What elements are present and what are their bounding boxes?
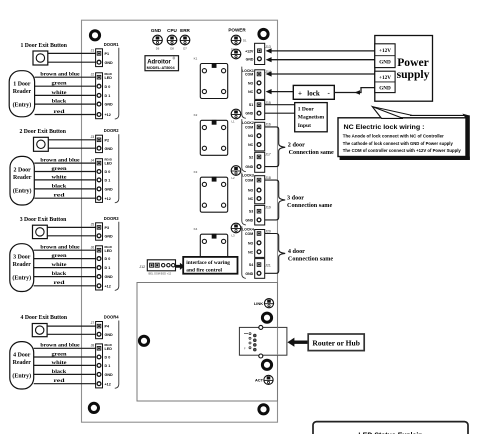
wire button1 to P1 [48, 52, 96, 54]
svg-text:Input: Input [298, 123, 311, 129]
wire button2 to P2 [48, 139, 95, 141]
terminal J3 exit button door2 [91, 135, 113, 153]
svg-text:4 Door: 4 Door [13, 353, 31, 359]
svg-text:J6: J6 [91, 245, 95, 249]
svg-text:J7: J7 [91, 321, 95, 325]
wire power +12V to COM lock1 [266, 71, 375, 76]
svg-text:J1: J1 [91, 48, 95, 52]
svg-text:J16: J16 [265, 123, 271, 127]
lock4 label strip line [242, 226, 246, 278]
wire lock to NC lock1 [266, 89, 294, 94]
wire reader1 black [35, 99, 96, 105]
svg-text:K3: K3 [194, 170, 198, 174]
terminal J2 reader door1 [91, 72, 113, 119]
svg-text:GND: GND [105, 147, 114, 151]
svg-text:D 1: D 1 [105, 266, 111, 270]
svg-text:NO: NO [248, 241, 254, 245]
wire button1 to GND [48, 61, 96, 63]
door 1 label strip line [115, 48, 119, 119]
svg-text:D 1: D 1 [105, 179, 111, 183]
svg-text:white: white [52, 90, 68, 96]
svg-text:+12V: +12V [379, 75, 391, 81]
svg-text:D1: D1 [243, 39, 247, 43]
door 2 group: exit button label [19, 128, 66, 135]
wire button4 to GND [47, 333, 96, 335]
svg-text:DOOR3: DOOR3 [104, 216, 120, 221]
svg-text:(Entry): (Entry) [13, 187, 32, 194]
svg-text:+12V: +12V [379, 48, 391, 54]
electric lock component [293, 85, 334, 99]
relay K2 [194, 113, 228, 155]
svg-text:green: green [52, 351, 67, 357]
svg-text:P2: P2 [105, 138, 110, 142]
svg-text:Connection same: Connection same [289, 149, 334, 156]
lock1 label strip line [242, 67, 246, 119]
svg-text:J3: J3 [91, 135, 95, 139]
terminal J4 reader door2 [91, 158, 113, 203]
svg-text:Router or Hub: Router or Hub [312, 339, 360, 347]
door 2 reader (entry) [10, 156, 34, 205]
terminal J15 door1 sensor [245, 101, 270, 120]
mounting hole bottom-left [89, 403, 98, 412]
svg-text:Connection same: Connection same [288, 255, 333, 262]
svg-text:S4: S4 [249, 263, 253, 267]
interface of warning and fire control box [183, 257, 237, 274]
svg-text:3 door: 3 door [287, 195, 304, 202]
svg-text:brown and blue: brown and blue [40, 158, 80, 164]
svg-text:K2: K2 [194, 113, 198, 117]
wire reader4 white [34, 360, 96, 366]
svg-text:L1: L1 [232, 119, 236, 123]
svg-text:D7: D7 [183, 47, 187, 51]
exit button SW2 [34, 137, 49, 151]
svg-text:NC: NC [248, 250, 254, 254]
svg-text:L3: L3 [232, 233, 236, 237]
LED L1 lock indicator [231, 109, 241, 123]
terminal J8 reader door4 [91, 343, 113, 388]
svg-text:supply: supply [397, 68, 430, 81]
svg-text:+12: +12 [105, 284, 111, 288]
svg-text:brown and blue: brown and blue [40, 72, 80, 78]
svg-text:Magnetism: Magnetism [298, 115, 325, 121]
LOCK4 silkscreen label [242, 228, 254, 232]
svg-text:3 Door Exit Button: 3 Door Exit Button [20, 216, 67, 223]
svg-text:GND: GND [105, 103, 114, 107]
exit button SW4 [32, 324, 47, 337]
terminal J16 lock2 relay output [245, 122, 271, 151]
LED ERR (status) [180, 28, 190, 51]
svg-text:black: black [52, 271, 68, 277]
svg-text:S1: S1 [249, 103, 253, 107]
door 3 group: exit button label [20, 216, 67, 223]
svg-text:black: black [52, 99, 68, 105]
svg-text:Connection same: Connection same [287, 202, 332, 209]
wire reader2 green [34, 166, 95, 172]
Adroitor model label U-silkscreen [145, 56, 179, 71]
svg-text:Reader: Reader [13, 89, 32, 95]
svg-text:GND: GND [105, 275, 114, 279]
relay K4 [194, 227, 228, 269]
svg-text:GND: GND [245, 112, 253, 116]
LED POWER [228, 28, 247, 45]
svg-text:K4: K4 [194, 227, 198, 231]
svg-text:lock: lock [307, 89, 320, 97]
wire lock minus to power GND (hook) [334, 88, 375, 95]
LED D2 [231, 48, 241, 59]
svg-text:NC: NC [248, 143, 254, 147]
svg-text:COM: COM [245, 232, 253, 236]
door 3 reader (entry) [10, 244, 34, 292]
brace 4 door connection [265, 234, 285, 274]
label 4 door connection same [288, 248, 333, 262]
router or hub box [308, 334, 364, 351]
svg-text:CPU: CPU [167, 28, 177, 33]
svg-text:DOOR1: DOOR1 [104, 42, 120, 47]
svg-text:LED: LED [105, 347, 113, 351]
mounting hole near RJ45 lower [262, 360, 271, 369]
svg-text:The COM of controller connect: The COM of controller connect with +12V … [343, 148, 461, 153]
svg-text:LED: LED [105, 162, 113, 166]
PCB board outline [82, 20, 278, 422]
svg-text:GND: GND [379, 60, 391, 66]
svg-text:DOOR4: DOOR4 [104, 315, 120, 320]
wire reader1 green [35, 81, 96, 87]
terminal J6 reader door3 [91, 245, 113, 290]
wire reader2 brown and blue [34, 158, 95, 164]
svg-text:GND: GND [246, 57, 254, 61]
svg-text:+12: +12 [105, 382, 111, 386]
svg-text:J19: J19 [265, 206, 271, 210]
svg-text:Adroitor: Adroitor [147, 59, 171, 65]
brace 2 door connection [265, 127, 285, 167]
svg-text:J5: J5 [91, 222, 95, 226]
wire power +12V to J13 [266, 48, 375, 53]
door 1 reader (entry) [9, 71, 34, 117]
svg-text:NC Electric lock wiring :: NC Electric lock wiring : [344, 125, 425, 131]
wire reader4 red [34, 378, 96, 384]
svg-text:red: red [54, 193, 65, 199]
svg-text:and fire control: and fire control [186, 268, 222, 274]
svg-text:D 0: D 0 [105, 85, 111, 89]
svg-text:J2: J2 [91, 72, 95, 76]
svg-text:LED: LED [105, 76, 113, 80]
terminal J13 power input [245, 43, 271, 64]
LED status explain box [313, 422, 468, 434]
mounting hole bottom-right [259, 405, 268, 414]
DOOR4 silkscreen label [104, 315, 120, 320]
svg-text:J8: J8 [91, 344, 95, 348]
svg-text:D 1: D 1 [105, 364, 111, 368]
svg-text:green: green [52, 253, 67, 259]
svg-text:(Entry): (Entry) [12, 275, 31, 282]
svg-text:3 Door: 3 Door [13, 255, 31, 261]
svg-text:COM: COM [245, 179, 253, 183]
wire reader1 red [35, 109, 96, 115]
svg-text:J4: J4 [91, 158, 95, 162]
LED LINK [254, 299, 274, 308]
svg-text:BEL GSM BSD +12: BEL GSM BSD +12 [149, 272, 172, 276]
svg-text:S3: S3 [249, 210, 253, 214]
svg-text:D8: D8 [170, 47, 174, 51]
network section inner outline [137, 283, 278, 402]
svg-text:MODEL:AT8004: MODEL:AT8004 [147, 66, 175, 70]
door 4 group: exit button label [21, 314, 68, 321]
svg-text:GND: GND [245, 272, 253, 276]
wire reader3 black [34, 271, 96, 277]
wire reader4 black [34, 369, 96, 375]
wire reader3 red [34, 280, 96, 286]
svg-text:red: red [54, 378, 65, 384]
svg-text:1 Door: 1 Door [298, 106, 315, 112]
LED L2 lock indicator [231, 166, 241, 180]
terminal J5 exit button door3 [91, 222, 113, 240]
svg-text:white: white [52, 262, 68, 268]
lock2 label strip line [242, 119, 246, 172]
wire button3 to GND [47, 235, 95, 237]
terminal J1 exit button door1 [91, 48, 113, 66]
1 door magnetism input box [295, 103, 328, 132]
svg-text:black: black [52, 369, 68, 375]
svg-text:2 Door: 2 Door [14, 167, 32, 173]
wire button3 to P3 [47, 226, 95, 228]
svg-text:D 1: D 1 [105, 94, 111, 98]
svg-text:The Anode of lock connect with: The Anode of lock connect with NC of Con… [343, 134, 444, 139]
door 4 reader (entry) [10, 342, 34, 389]
terminal J14 lock1 relay output [245, 70, 271, 100]
power supply unit [375, 36, 433, 102]
svg-text:P3: P3 [105, 226, 110, 230]
svg-text:NO: NO [248, 189, 254, 193]
mounting hole top-left [90, 31, 99, 40]
svg-text:K1: K1 [194, 56, 198, 60]
svg-text:GND: GND [379, 86, 391, 92]
svg-text:GND: GND [105, 234, 114, 238]
svg-text:brown and blue: brown and blue [40, 245, 80, 251]
wire reader3 brown and blue [34, 245, 96, 251]
svg-text:GND: GND [245, 218, 253, 222]
svg-text:COM: COM [245, 125, 253, 129]
wire reader3 white [34, 262, 96, 268]
wire button4 to P4 [47, 325, 96, 327]
svg-text:J21: J21 [265, 264, 271, 268]
wire button2 to GND [48, 147, 95, 149]
brace 3 door connection [265, 180, 285, 220]
svg-text:LINK: LINK [254, 301, 263, 306]
arrow J12 to interface [176, 263, 185, 270]
terminal J21 door4 sensor [245, 259, 270, 279]
svg-text:D 0: D 0 [105, 257, 111, 261]
svg-text:GND: GND [151, 28, 162, 33]
svg-text:LOCK4: LOCK4 [242, 228, 254, 232]
svg-text:D 0: D 0 [105, 170, 111, 174]
door 4 label strip line [115, 321, 119, 389]
svg-text:GND: GND [105, 373, 114, 377]
svg-text:interface of waring: interface of waring [186, 260, 230, 266]
svg-text:LED: LED [105, 249, 113, 253]
svg-text:(Entry): (Entry) [12, 373, 31, 380]
wire reader3 green [34, 253, 96, 259]
exit button SW3 [33, 225, 48, 238]
DOOR2 silkscreen label [104, 128, 120, 133]
svg-text:The cathode of lock connect wi: The cathode of lock connect with GND of … [343, 141, 453, 146]
svg-text:+12V: +12V [245, 49, 254, 53]
svg-text:J13: J13 [265, 45, 271, 49]
svg-text:Reader: Reader [13, 262, 32, 268]
svg-text:white: white [52, 174, 68, 180]
LED GND (status) [151, 28, 162, 51]
svg-text:NC: NC [248, 90, 254, 94]
svg-text:D6: D6 [156, 47, 160, 51]
label 3 door connection same [287, 195, 332, 210]
lock3 label strip line [242, 173, 246, 226]
terminal J20 lock4 relay output [245, 230, 271, 258]
svg-text:1 Door: 1 Door [13, 82, 31, 88]
exit button SW1 [33, 51, 48, 65]
relay K3 [194, 170, 228, 212]
svg-text:Reader: Reader [13, 360, 32, 366]
wire reader2 white [34, 174, 95, 180]
power supply output 2 (+12V/GND) [375, 71, 395, 92]
door 2 label strip line [115, 134, 119, 203]
svg-text:NO: NO [248, 134, 254, 138]
svg-text:COM: COM [245, 73, 253, 77]
svg-text:2 Door Exit Button: 2 Door Exit Button [19, 128, 66, 135]
wire power GND to J13 [266, 57, 375, 62]
svg-text:+12: +12 [105, 113, 111, 117]
terminal J19 door3 sensor [245, 205, 270, 225]
terminal J7 exit button door4 [91, 321, 113, 339]
label 2 door connection same [288, 141, 334, 156]
svg-text:4 Door Exit Button: 4 Door Exit Button [21, 314, 68, 321]
RJ45 ethernet connector [239, 325, 287, 358]
svg-text:ERR: ERR [180, 28, 190, 33]
svg-text:+: + [298, 89, 302, 97]
DOOR1 silkscreen label [104, 42, 120, 47]
svg-text:S2: S2 [249, 155, 253, 159]
wire reader1 white [35, 90, 96, 96]
svg-text:NC: NC [248, 197, 254, 201]
LOCK3 silkscreen label [242, 173, 254, 177]
door 1 group: exit button label [20, 42, 67, 49]
svg-text:J12: J12 [139, 265, 145, 269]
svg-text:brown and blue: brown and blue [40, 343, 80, 349]
svg-text:red: red [54, 280, 65, 286]
svg-text:DOOR2: DOOR2 [104, 128, 120, 133]
svg-text:Reader: Reader [13, 175, 32, 181]
LOCK1 silkscreen label [242, 69, 254, 73]
arrow router to RJ45 [287, 338, 308, 347]
terminal J12 fire/alarm [139, 260, 175, 276]
svg-text:GND: GND [105, 333, 114, 337]
svg-text:white: white [52, 360, 68, 366]
wire reader1 brown and blue [35, 72, 96, 78]
svg-text:GND: GND [105, 188, 114, 192]
LED ACT [255, 375, 273, 384]
LED L3 lock indicator [231, 223, 241, 237]
svg-text:LOCK3: LOCK3 [242, 173, 254, 177]
terminal J18 lock3 relay output [245, 176, 271, 204]
svg-text:GND: GND [105, 61, 114, 65]
svg-text:L2: L2 [232, 176, 236, 180]
svg-text:P1: P1 [105, 52, 110, 56]
svg-text:black: black [52, 183, 68, 189]
power supply output 1 (+12V/GND) [375, 44, 395, 68]
relay K1 [194, 56, 228, 98]
wire reader4 brown and blue [34, 343, 96, 349]
svg-text:POWER: POWER [228, 28, 246, 33]
svg-text:NO: NO [248, 81, 254, 85]
svg-text:D2: D2 [231, 48, 235, 52]
mounting hole top-right [259, 29, 268, 38]
svg-text:+12: +12 [105, 197, 111, 201]
svg-text:red: red [54, 109, 65, 115]
wire GND to magnetism input [265, 112, 295, 114]
mounting hole middle-left [139, 336, 148, 345]
wire reader2 black [34, 183, 95, 189]
svg-text:D 0: D 0 [105, 356, 111, 360]
door 3 label strip line [115, 222, 119, 291]
svg-text:J18: J18 [265, 176, 271, 180]
LED CPU (status) [167, 28, 177, 51]
LOCK2 silkscreen label [242, 121, 254, 125]
svg-text:GND: GND [245, 165, 253, 169]
svg-text:4 door: 4 door [288, 248, 305, 255]
terminal J17 door2 sensor [245, 152, 270, 172]
svg-text:1 Door Exit Button: 1 Door Exit Button [20, 42, 67, 49]
mounting hole near RJ45 upper [262, 313, 271, 322]
svg-text:ACT: ACT [255, 378, 264, 383]
svg-text:green: green [52, 166, 67, 172]
wire reader4 green [34, 351, 96, 357]
svg-text:2 door: 2 door [288, 141, 305, 148]
wire S1 to magnetism input [265, 104, 295, 106]
NC electric lock wiring callout [338, 107, 470, 160]
svg-text:(Entry): (Entry) [13, 102, 32, 109]
svg-text:J17: J17 [265, 153, 271, 157]
DOOR3 silkscreen label [104, 216, 120, 221]
wire reader2 red [34, 193, 95, 199]
svg-text:green: green [52, 81, 67, 87]
